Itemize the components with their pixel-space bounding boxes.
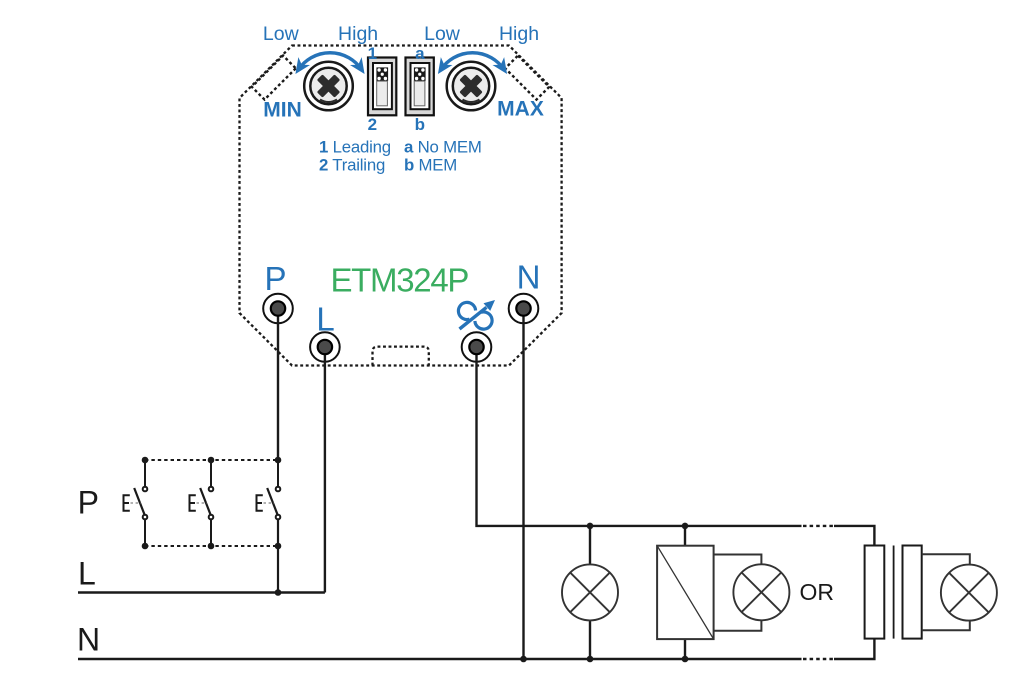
svg-text:b: b (415, 115, 425, 134)
wire N line dashed segment (803, 658, 834, 660)
svg-text:ETM324P: ETM324P (330, 262, 468, 299)
terminal L inner pin (318, 340, 332, 354)
terminal N inner pin (516, 301, 530, 315)
lamp E3 loop wires (922, 554, 970, 630)
svg-text:P: P (78, 484, 99, 520)
node bottom rail 3 (275, 543, 282, 550)
svg-text:Low: Low (263, 23, 300, 45)
svg-text:N: N (517, 259, 541, 296)
wire N line to transformer (834, 639, 874, 659)
dimmer symbol (458, 300, 495, 329)
pushbutton switch SB1 (124, 460, 148, 546)
terminal dimmer output outer ring (462, 332, 492, 362)
svg-text:L: L (78, 555, 96, 591)
node bottom rail 1 (142, 543, 149, 550)
iron core transformer secondary winding (903, 546, 922, 639)
node bottom rail 2 (208, 543, 215, 550)
lamp E1 (562, 564, 618, 620)
node N line lamp E1 (587, 656, 594, 663)
lamp E3 (941, 565, 997, 621)
rotation arrow over MIN pot (299, 53, 362, 70)
svg-text:a No MEM: a No MEM (404, 137, 482, 156)
lamp E1 feed wire (589, 526, 591, 659)
mounting claw tab top-left (252, 56, 296, 100)
svg-text:MIN: MIN (263, 99, 302, 122)
node L line junction (275, 589, 282, 596)
pushbutton rail bottom (dashed) (145, 545, 278, 547)
svg-text:High: High (338, 23, 378, 45)
svg-text:b MEM: b MEM (404, 155, 457, 174)
node dimmer wire lamp E1 (587, 523, 594, 530)
iron core transformer core (893, 546, 895, 639)
terminal dimmer output inner pin (469, 340, 483, 354)
wire N terminal down (522, 309, 524, 660)
pushbutton switch SB3 (257, 460, 281, 593)
rotation arrow over MAX pot (441, 53, 504, 70)
mounting claw tab top-right (505, 56, 549, 100)
potentiometer MIN (304, 62, 353, 111)
device bottom mounting notch (373, 347, 429, 366)
terminal L outer ring (310, 332, 340, 362)
junction dots (142, 457, 689, 663)
node N line transformer (682, 656, 689, 663)
svg-text:1: 1 (368, 44, 377, 63)
node top rail 3 (275, 457, 282, 464)
wire L terminal down (324, 347, 326, 593)
svg-text:Low: Low (424, 23, 461, 45)
svg-text:N: N (77, 622, 100, 658)
svg-text:2 Trailing: 2 Trailing (319, 155, 385, 174)
wire L line (78, 591, 325, 593)
wire dimmer output to transformer (834, 526, 874, 546)
iron core transformer primary winding (865, 546, 885, 639)
svg-text:2: 2 (368, 115, 377, 134)
node top rail 2 (208, 457, 215, 464)
svg-text:High: High (499, 23, 539, 45)
wire dimmer output dashed segment (803, 525, 834, 527)
electronic transformer box (657, 546, 714, 639)
svg-text:P: P (264, 260, 286, 297)
wire P terminal to switch bank (277, 309, 279, 461)
slide switch S1 (leading/trailing) (368, 58, 396, 116)
wire dimmer output down and right (477, 347, 802, 526)
svg-text:1 Leading: 1 Leading (319, 137, 391, 156)
electronic transformer feed wires (684, 526, 686, 546)
svg-text:OR: OR (800, 579, 835, 605)
potentiometer MAX (447, 62, 496, 111)
svg-text:a: a (415, 44, 425, 63)
node top rail 1 (142, 457, 149, 464)
pushbutton rail top (dashed) (145, 459, 278, 461)
terminal N outer ring (509, 294, 539, 324)
device dashed outline (octagon with bottom notch) (240, 46, 562, 366)
terminal P inner pin (271, 301, 285, 315)
node dimmer wire transformer (682, 523, 689, 530)
wire N line solid left part (78, 658, 802, 660)
terminal P outer ring (263, 294, 293, 324)
lamp E2 (733, 564, 789, 620)
pushbutton switch SB2 (190, 460, 214, 546)
svg-text:MAX: MAX (497, 98, 544, 121)
slide switch S2 (MEM) (406, 58, 434, 116)
node N line terminal (520, 656, 527, 663)
lamp E2 loop wires (714, 555, 762, 631)
